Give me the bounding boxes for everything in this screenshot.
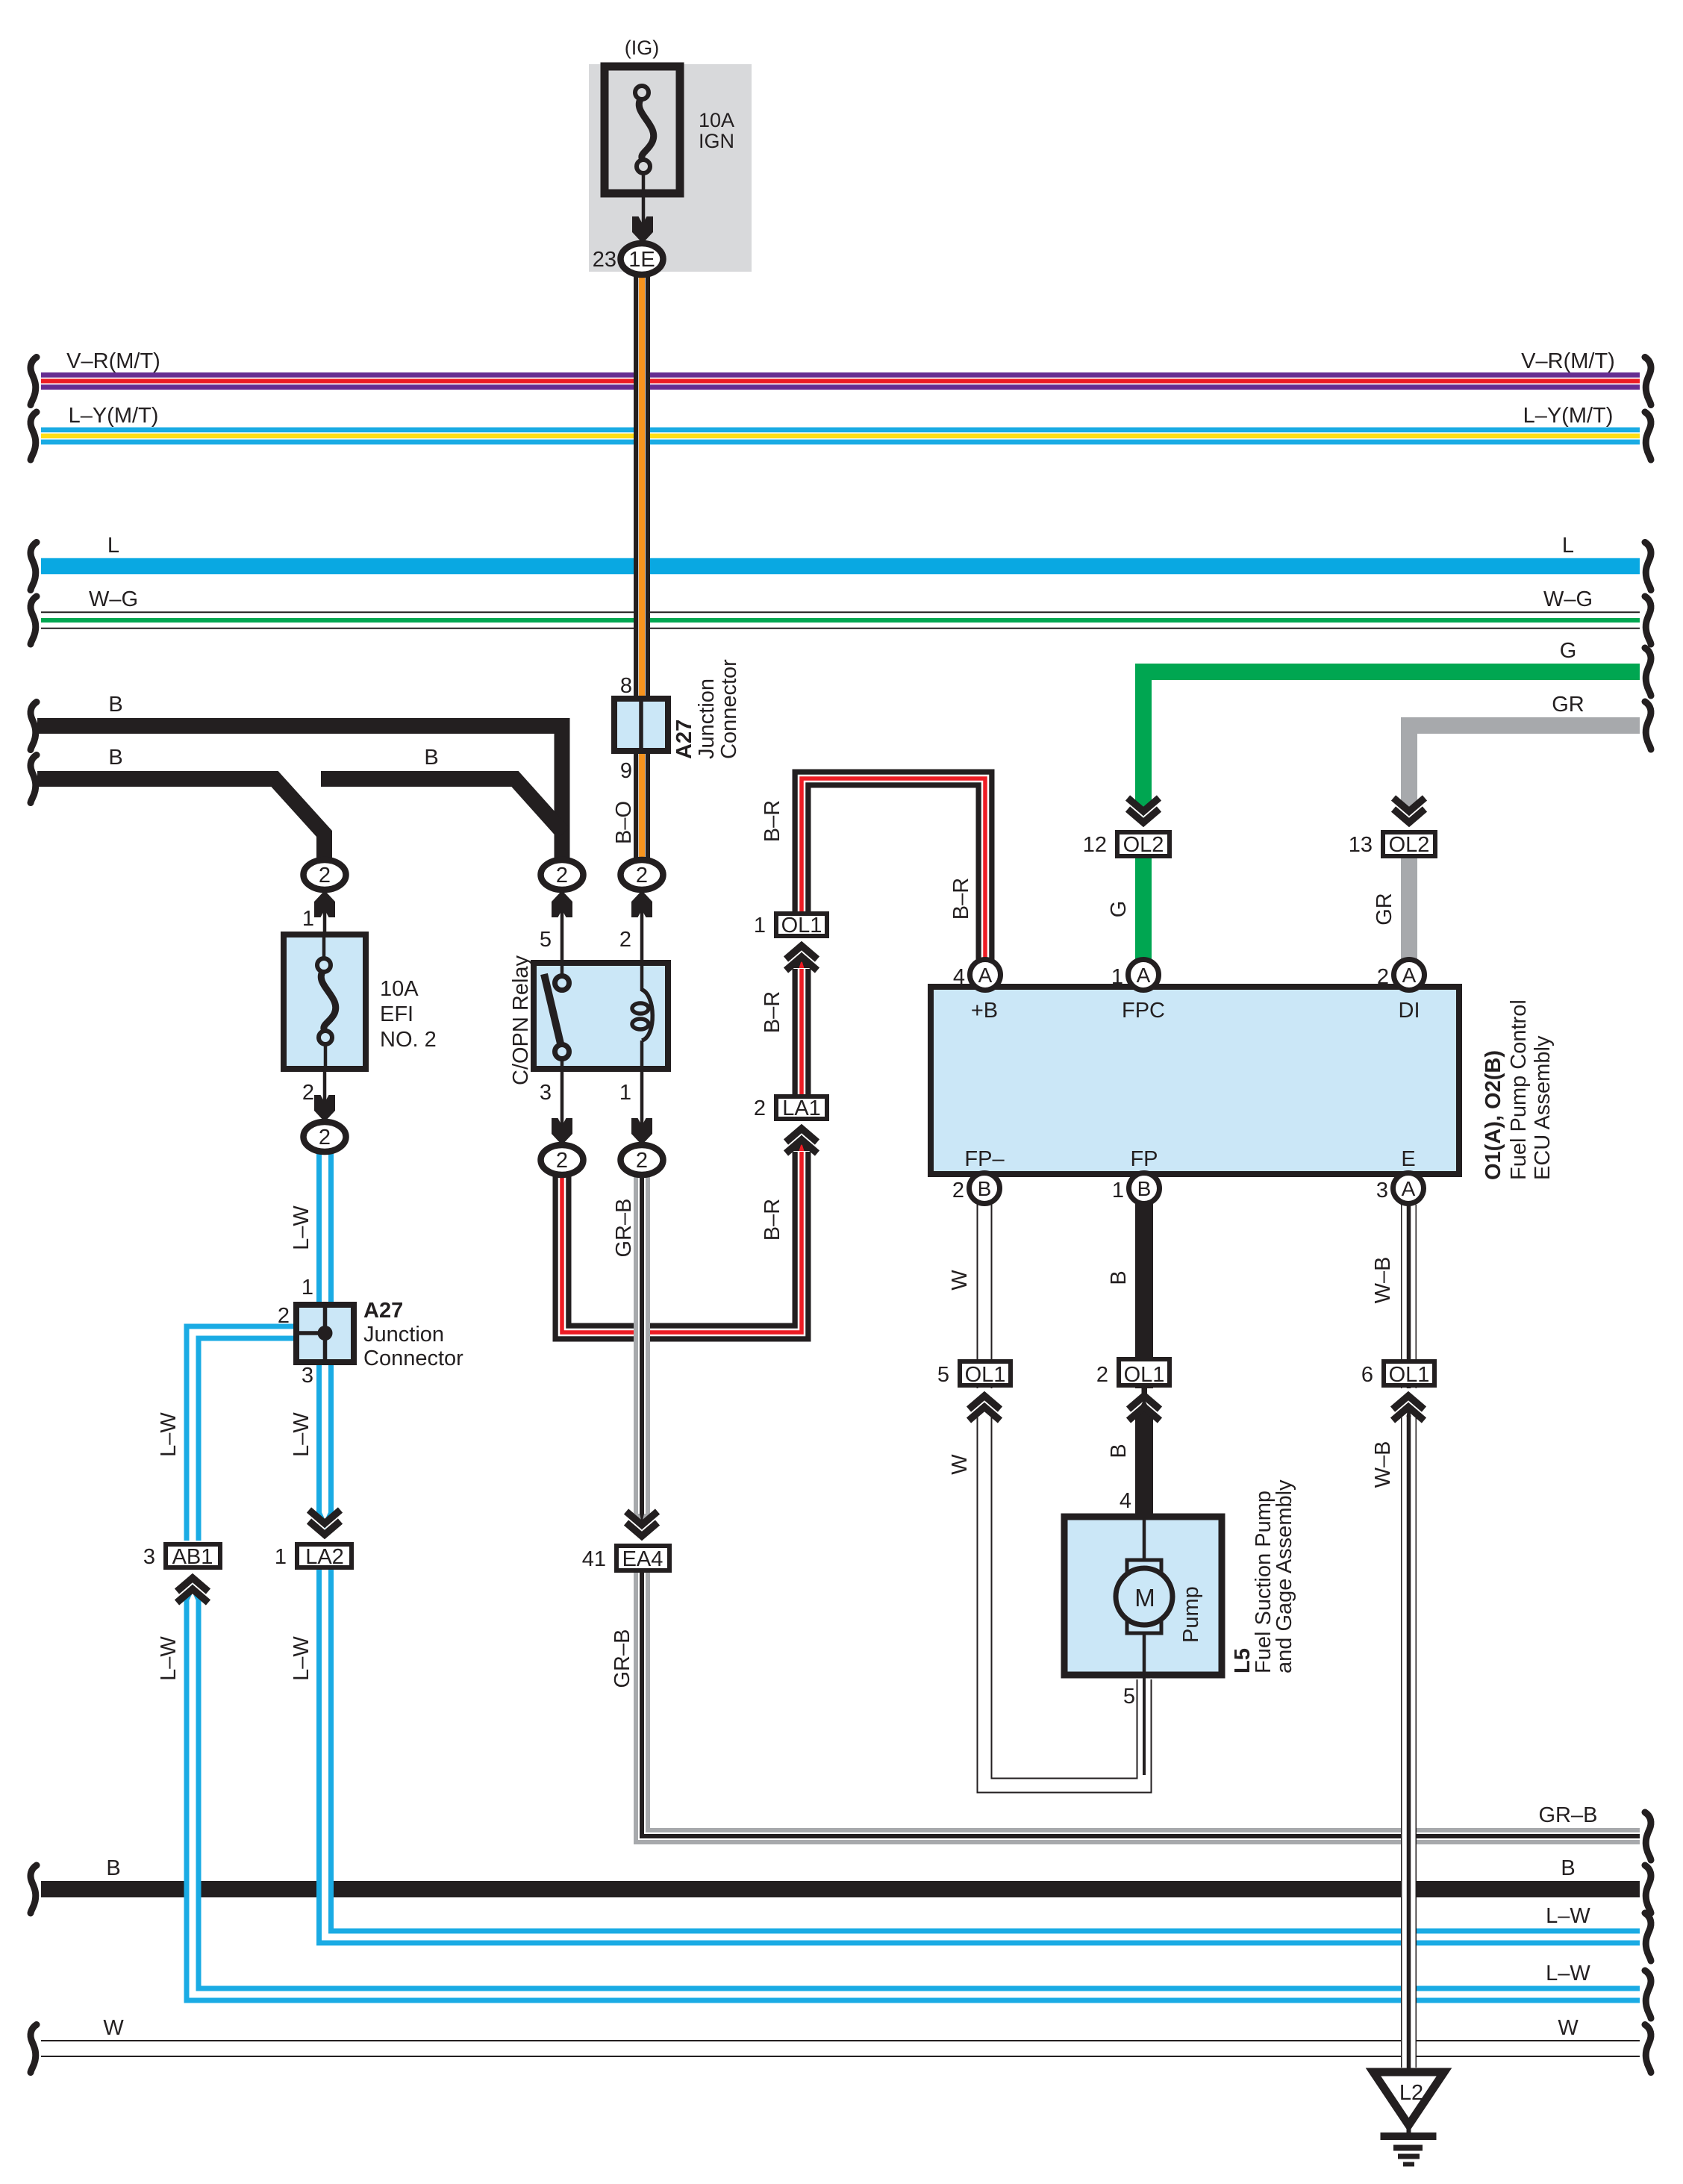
svg-text:A: A: [1402, 1177, 1416, 1200]
svg-text:W–B: W–B: [1371, 1441, 1395, 1488]
svg-text:3: 3: [1376, 1179, 1388, 1202]
svg-text:G: G: [1107, 901, 1131, 918]
svg-text:FP–: FP–: [964, 1147, 1005, 1171]
svg-text:2: 2: [636, 864, 648, 887]
svg-text:W–B: W–B: [1371, 1257, 1395, 1304]
svg-text:OL1: OL1: [965, 1363, 1006, 1387]
svg-text:B–R: B–R: [761, 800, 784, 842]
splice node 2 (above EFI fuse): [304, 860, 346, 890]
wire B-O from junction A27 to splice above relay coil: [634, 749, 650, 862]
pump pin 5 stub: [1123, 1675, 1144, 1775]
svg-text:2: 2: [1096, 1363, 1108, 1387]
svg-text:G: G: [1560, 639, 1577, 663]
wire relay pin 3 to splice: [540, 1069, 572, 1145]
connector OL1 pin 1: [754, 914, 827, 970]
fuel suction pump and gage assembly L5: [1064, 1479, 1296, 1675]
connector EA4 pin 41: [582, 1511, 669, 1571]
svg-text:E: E: [1401, 1147, 1415, 1171]
svg-text:LA1: LA1: [782, 1096, 821, 1120]
svg-text:IGN: IGN: [699, 130, 734, 152]
svg-text:23: 23: [593, 248, 616, 272]
svg-text:DI: DI: [1399, 999, 1420, 1023]
svg-text:B–O: B–O: [612, 801, 636, 844]
wire splice to relay pin 5: [540, 890, 572, 982]
svg-text:B: B: [1137, 1177, 1152, 1200]
svg-text:1: 1: [275, 1545, 287, 1569]
svg-text:W: W: [1558, 2016, 1579, 2040]
bus B (lower): [31, 1856, 1651, 1913]
svg-text:2: 2: [556, 864, 568, 887]
svg-text:2: 2: [619, 928, 631, 952]
svg-text:B: B: [424, 746, 438, 770]
svg-text:10A: 10A: [699, 109, 734, 131]
svg-text:A: A: [1137, 964, 1151, 987]
connector LA1 pin 2: [754, 1096, 827, 1153]
connector OL1 pin 6: [1361, 1361, 1434, 1420]
bus V-R(M/T): [31, 349, 1651, 405]
svg-text:EA4: EA4: [622, 1547, 663, 1571]
svg-text:1: 1: [302, 907, 314, 931]
svg-text:2: 2: [1377, 965, 1389, 989]
svg-text:Junction: Junction: [695, 678, 719, 759]
svg-text:L: L: [1562, 534, 1574, 558]
svg-text:OL2: OL2: [1123, 833, 1164, 857]
svg-text:GR–B: GR–B: [1539, 1803, 1598, 1827]
svg-text:L–W: L–W: [290, 1636, 313, 1681]
svg-text:Junction: Junction: [363, 1323, 444, 1347]
fuse 10A EFI NO. 2: [284, 935, 437, 1069]
wire W from ECU FP- to pump pin 5: [948, 1205, 1144, 1785]
svg-text:AB1: AB1: [172, 1545, 213, 1569]
svg-text:GR–B: GR–B: [611, 1629, 634, 1688]
svg-text:B: B: [108, 746, 122, 770]
svg-text:A27: A27: [363, 1299, 403, 1323]
splice node 2 (below relay coil): [621, 1145, 663, 1175]
svg-text:2: 2: [319, 864, 331, 887]
svg-text:10A: 10A: [380, 977, 419, 1001]
svg-text:9: 9: [620, 759, 632, 783]
wire EFI fuse pin 2 to splice: [302, 1069, 335, 1122]
svg-text:L–W: L–W: [290, 1205, 313, 1250]
wire relay pin 1 to splice: [619, 1069, 652, 1145]
bus L: [31, 534, 1651, 590]
svg-text:41: 41: [582, 1547, 606, 1571]
svg-text:and Gage Assembly: and Gage Assembly: [1273, 1479, 1296, 1673]
svg-text:2: 2: [302, 1081, 314, 1105]
bus B (upper first): [31, 693, 562, 862]
svg-text:L–W: L–W: [290, 1412, 313, 1457]
wire B-O from fuse 1E to junction A27: [612, 273, 642, 844]
svg-text:1: 1: [302, 1276, 313, 1300]
fuse 10A IGN: [605, 37, 734, 193]
svg-text:2: 2: [754, 1096, 766, 1120]
wire L-W splice below EFI fuse to junction A27 lower: [290, 1149, 325, 1310]
ECU pin 2 B (FP-): [952, 1173, 1000, 1204]
svg-text:NO. 2: NO. 2: [380, 1028, 437, 1052]
svg-text:L–W: L–W: [1546, 1962, 1590, 1985]
svg-text:2: 2: [278, 1304, 290, 1328]
splice node 2 (above relay coil): [621, 860, 663, 890]
wire L-W junction A27 pin 3 to LA2 to bus: [290, 1358, 1651, 1961]
svg-text:Fuel Pump Control: Fuel Pump Control: [1507, 999, 1531, 1180]
ground L2: [1373, 2072, 1444, 2165]
svg-text:5: 5: [1123, 1685, 1135, 1709]
svg-text:FPC: FPC: [1122, 999, 1165, 1023]
svg-text:B: B: [108, 693, 122, 717]
bus G: [1135, 639, 1651, 817]
wire fuse IGN output to connector 1E: [632, 173, 653, 243]
wire GR from OL2 pin 13 to ECU DI: [1373, 857, 1409, 963]
svg-text:L–Y(M/T): L–Y(M/T): [1523, 404, 1614, 428]
svg-text:6: 6: [1361, 1363, 1373, 1387]
svg-text:LA2: LA2: [305, 1545, 344, 1569]
ECU pin 1 A (FPC): [1111, 960, 1159, 990]
wire W-B from ECU E to ground L2: [1371, 1205, 1411, 2071]
svg-text:W: W: [103, 2016, 124, 2040]
bus W-G: [31, 587, 1651, 644]
svg-text:OL2: OL2: [1389, 833, 1430, 857]
svg-text:W: W: [948, 1270, 972, 1291]
wire B from ECU FP to pump pin 4: [1107, 1203, 1153, 1520]
junction connector A27 (top) pins 8/9: [614, 659, 741, 783]
ignition fuse block shading: [589, 64, 752, 272]
connector OL1 pin 2: [1096, 1359, 1170, 1420]
svg-text:B: B: [978, 1177, 992, 1200]
connector OL2 pin 12: [1083, 798, 1170, 857]
svg-text:1E: 1E: [628, 248, 655, 272]
svg-text:OL1: OL1: [781, 914, 822, 937]
svg-text:4: 4: [1120, 1489, 1131, 1513]
relay C/OPN: [509, 955, 668, 1085]
connector OL1 pin 5: [937, 1361, 1011, 1420]
ECU pin 3 A (E): [1376, 1173, 1424, 1204]
svg-text:1: 1: [619, 1081, 631, 1105]
svg-text:2: 2: [319, 1126, 331, 1149]
svg-text:B–R: B–R: [949, 878, 973, 920]
svg-text:1: 1: [1112, 1179, 1124, 1202]
svg-text:V–R(M/T): V–R(M/T): [66, 349, 160, 373]
svg-text:5: 5: [540, 928, 552, 952]
svg-text:2: 2: [556, 1149, 568, 1173]
svg-text:1: 1: [754, 914, 766, 937]
connector node 1E pin 23: [593, 243, 663, 275]
svg-text:ECU Assembly: ECU Assembly: [1531, 1035, 1555, 1180]
wire splice to EFI fuse pin 1: [302, 890, 335, 937]
svg-text:L–W: L–W: [157, 1412, 181, 1457]
svg-text:2: 2: [952, 1179, 964, 1202]
svg-text:B: B: [106, 1856, 120, 1880]
connector LA2 pin 1: [275, 1510, 352, 1569]
svg-text:5: 5: [937, 1363, 949, 1387]
svg-text:2: 2: [636, 1149, 648, 1173]
svg-text:W–G: W–G: [89, 587, 138, 611]
connector AB1 pin 3: [143, 1544, 220, 1603]
svg-text:3: 3: [143, 1545, 155, 1569]
svg-text:C/OPN Relay: C/OPN Relay: [509, 955, 533, 1085]
svg-text:B–R: B–R: [761, 1199, 784, 1241]
svg-text:A: A: [978, 964, 993, 987]
svg-text:13: 13: [1349, 833, 1373, 857]
svg-text:M: M: [1134, 1584, 1155, 1612]
svg-text:A: A: [1402, 964, 1417, 987]
svg-text:B: B: [1107, 1444, 1131, 1458]
ECU fuel pump control assembly O1(A),O2(B): [931, 987, 1555, 1180]
svg-text:B: B: [1107, 1270, 1131, 1285]
bus W (lower): [31, 2016, 1651, 2073]
splice node 2 (above relay switch): [541, 860, 584, 890]
svg-text:L–W: L–W: [157, 1636, 181, 1681]
svg-text:3: 3: [302, 1364, 313, 1388]
ECU pin 1 B (FP): [1112, 1173, 1160, 1204]
ECU pin 2 A (DI): [1377, 960, 1425, 990]
svg-text:EFI: EFI: [380, 1002, 413, 1026]
svg-text:A27: A27: [672, 720, 696, 759]
svg-text:12: 12: [1083, 833, 1107, 857]
svg-text:Pump: Pump: [1179, 1586, 1203, 1643]
svg-text:Connector: Connector: [717, 659, 741, 759]
junction connector A27 (lower) pins 1/2/3: [296, 1299, 463, 1370]
splice node 2 (below EFI fuse): [304, 1122, 346, 1152]
connector OL2 pin 13: [1349, 798, 1435, 857]
svg-text:O1(A), O2(B): O1(A), O2(B): [1481, 1050, 1505, 1180]
bus L-Y(M/T): [31, 404, 1651, 460]
ECU pin 4 A (+B): [953, 960, 1001, 990]
bus B (upper second, branch to EFI fuse): [31, 746, 563, 862]
svg-text:OL1: OL1: [1389, 1363, 1430, 1387]
wire splice to relay pin 2: [619, 890, 652, 964]
svg-text:GR: GR: [1373, 893, 1396, 926]
svg-text:+B: +B: [971, 999, 998, 1023]
svg-text:GR: GR: [1552, 693, 1584, 717]
svg-text:W: W: [948, 1454, 972, 1475]
svg-text:4: 4: [953, 965, 965, 989]
svg-text:FP: FP: [1130, 1147, 1158, 1171]
svg-text:L–Y(M/T): L–Y(M/T): [69, 404, 159, 428]
bus GR: [1401, 693, 1651, 817]
svg-text:8: 8: [620, 674, 632, 698]
svg-text:W–G: W–G: [1543, 587, 1593, 611]
svg-text:L: L: [107, 534, 119, 558]
svg-text:GR–B: GR–B: [612, 1199, 636, 1258]
svg-text:L2: L2: [1399, 2081, 1423, 2105]
svg-text:(IG): (IG): [625, 37, 660, 59]
svg-text:Connector: Connector: [363, 1347, 463, 1370]
wire B-R loop: relay pin 3 to ECU +B via LA1 and OL1: [562, 779, 985, 1332]
svg-text:B–R: B–R: [761, 991, 784, 1033]
bus GR-B (lower): [611, 1176, 1651, 1860]
svg-text:B: B: [1561, 1856, 1575, 1880]
svg-text:1: 1: [1111, 965, 1123, 989]
wire G from OL2 pin 12 to ECU FPC: [1107, 857, 1143, 963]
svg-text:L–W: L–W: [1546, 1904, 1590, 1928]
splice node 2 (below relay switch): [541, 1145, 584, 1175]
svg-text:V–R(M/T): V–R(M/T): [1521, 349, 1615, 373]
svg-text:3: 3: [540, 1081, 552, 1105]
wire L-W junction A27 pin 2 to AB1 to bus: [157, 1304, 1651, 2018]
svg-text:OL1: OL1: [1124, 1363, 1165, 1387]
